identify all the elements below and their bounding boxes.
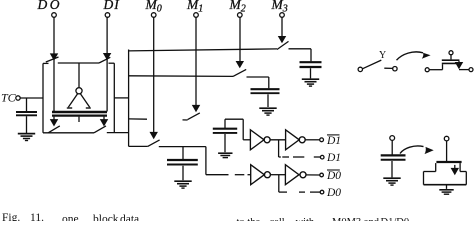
svg-text:Fig.: Fig. <box>2 212 20 221</box>
svg-text:Y: Y <box>379 50 386 61</box>
svg-text:D0: D0 <box>326 187 341 199</box>
svg-text:to the: to the <box>237 217 261 221</box>
svg-text:TC: TC <box>1 91 17 105</box>
svg-text:DO: DO <box>37 0 63 12</box>
svg-text:D1/D0.: D1/D0. <box>381 217 412 221</box>
svg-text:M2: M2 <box>229 0 246 14</box>
svg-text:block: block <box>93 214 119 222</box>
svg-text:D1: D1 <box>326 152 341 164</box>
svg-text:D1: D1 <box>326 135 341 147</box>
svg-text:D0: D0 <box>326 170 341 182</box>
svg-text:DI: DI <box>103 0 121 12</box>
svg-text:11.: 11. <box>30 212 44 221</box>
svg-text:data: data <box>120 214 139 222</box>
svg-text:cell: cell <box>270 217 285 221</box>
svg-text:M1: M1 <box>186 0 203 14</box>
svg-text:M0M3 and: M0M3 and <box>332 217 380 221</box>
svg-text:M3: M3 <box>271 0 288 14</box>
svg-text:one: one <box>62 214 79 222</box>
svg-text:with: with <box>296 217 315 221</box>
